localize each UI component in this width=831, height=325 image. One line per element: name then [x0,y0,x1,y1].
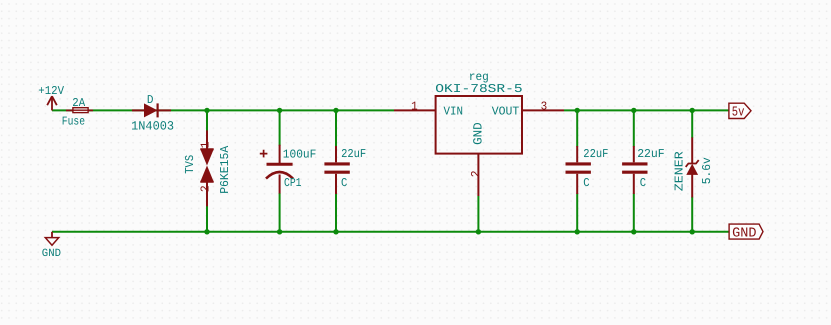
junction at regulator GND bottom [476,229,481,234]
pin 3 stub (VOUT) [522,109,564,111]
junction at C1 top [333,108,338,113]
svg-text:1N4003: 1N4003 [131,119,174,133]
svg-text:TVS: TVS [183,155,197,174]
value label P6KE15A [218,145,232,194]
wire C2 column upper segment [576,110,578,146]
capacitor C1 (plates and pins) [324,146,349,194]
svg-text:D: D [147,93,154,107]
wire TVS column upper segment [206,110,208,131]
capacitor C3 (plates and pins) [622,146,647,194]
wire zener column lower segment [691,197,693,232]
junction at zener bottom [690,229,695,234]
junction at C3 top [631,108,636,113]
svg-text:22uF: 22uF [583,147,608,161]
svg-text:GND: GND [732,227,756,242]
wire GND bottom rail [52,231,729,233]
junction at C1 bottom [333,229,338,234]
net name label GND (power symbol) [42,248,62,260]
pin 2 stub (GND) [477,154,479,196]
reference label C (C3) [640,176,646,190]
wire C1 column upper segment [335,110,337,146]
wire zener column upper segment [691,110,693,137]
svg-text:5.6v: 5.6v [700,157,714,184]
pin name VIN [444,105,464,119]
svg-text:2: 2 [198,185,212,192]
pin number 1 (TVS top) [198,141,212,148]
junction at C2 top [575,108,580,113]
svg-text:1: 1 [198,141,212,148]
svg-text:C: C [341,176,347,190]
svg-text:22uF: 22uF [341,147,366,161]
junction at TVS bottom [204,229,209,234]
capacitor CP1 (polarized, plates and plus sign) [260,145,293,194]
power symbol +12V (arrow) [47,96,57,110]
wire C1 column lower segment [335,194,337,232]
junction at TVS top [204,108,209,113]
svg-text:2: 2 [469,170,483,177]
TVS diode (bidirectional bowtie) [200,130,213,206]
pin number 3 (regulator) [541,99,548,113]
value label 22uF (C1) [341,147,366,161]
svg-text:1: 1 [411,99,418,113]
svg-text:2A: 2A [72,96,86,110]
svg-text:100uF: 100uF [283,148,317,162]
svg-text:VOUT: VOUT [492,105,520,119]
pin number 2 (regulator) [469,170,483,177]
fuse F1 body and pins [66,108,93,113]
capacitor C2 (plates and pins) [566,146,591,194]
svg-text:C: C [583,176,589,190]
name label Fuse [62,114,85,128]
svg-text:3: 3 [541,99,548,113]
junction at CP1 bottom [277,229,282,234]
svg-text:VIN: VIN [444,105,464,119]
reference label D [147,93,154,107]
net name label +12V [38,84,64,98]
zener diode (triangle and bent cathode bar) [686,137,699,197]
value label 5.6v [700,157,714,184]
reference label C (C1) [341,176,347,190]
wire TVS column lower segment [206,206,208,232]
wire C3 column upper segment [633,110,635,146]
pin 1 stub (VIN) [394,109,436,111]
svg-text:P6KE15A: P6KE15A [218,145,232,194]
pin number 1 (regulator) [411,99,418,113]
svg-text:5v: 5v [732,105,745,120]
reference label TVS [183,155,197,174]
junction at zener top [690,108,695,113]
value label OKI-78SR-5 [435,82,522,96]
wire +12V corner to VIN pin (top rail left) [52,109,394,111]
global label GND [729,224,763,242]
wire CP1 column lower segment [279,193,281,232]
reference label reg [469,70,489,84]
svg-text:ZENER: ZENER [673,151,687,191]
junction at C2 bottom [575,229,580,234]
pin number 2 (TVS bottom) [198,185,212,192]
value label 100uF [283,148,317,162]
svg-text:+12V: +12V [38,84,64,98]
diode D (triangle, cathode bar, pins) [132,103,171,117]
reference label CP1 [284,176,302,190]
reference label C (C2) [583,176,589,190]
svg-text:C: C [640,176,646,190]
svg-text:GND: GND [42,248,62,260]
ground symbol (bottom-left triangle) [45,232,58,245]
global label 5v [729,103,751,120]
value label 22uF (C2) [583,147,608,161]
wire C2 column lower segment [576,194,578,232]
pin name GND (rotated) [472,122,486,145]
svg-text:GND: GND [472,122,486,145]
svg-text:OKI-78SR-5: OKI-78SR-5 [435,82,522,96]
pin name VOUT [492,105,520,119]
svg-text:Fuse: Fuse [62,114,85,128]
regulator U1 body OKI-78SR-5 [436,96,522,154]
value label 1N4003 [131,119,174,133]
junction at CP1 top [277,108,282,113]
svg-text:CP1: CP1 [284,176,302,190]
wire C3 column lower segment [633,194,635,232]
junction at C3 bottom [631,229,636,234]
reference label ZENER [673,151,687,191]
value label 2A [72,96,86,110]
wire regulator GND pin to bottom rail [477,196,479,232]
svg-text:22uF: 22uF [637,147,665,161]
value label 22uF (C3) [637,147,665,161]
wire VOUT pin to 5v label (top rail right) [564,109,729,111]
wire CP1 column upper segment [279,110,281,146]
